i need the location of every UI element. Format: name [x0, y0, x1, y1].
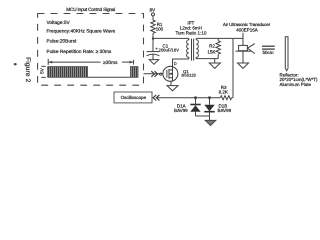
gate wire from MCU box to Q1 — [144, 73, 164, 75]
wire secondary bottom — [196, 58, 218, 60]
ground below diodes — [205, 120, 216, 125]
wire node to transformer primary — [153, 37, 189, 39]
wire R3 to drop — [232, 97, 233, 99]
wire joining diodes — [196, 115, 210, 117]
svg-text:MCU Input Control Signal: MCU Input Control Signal — [66, 7, 115, 12]
wire to ground — [209, 116, 211, 120]
svg-text:≥30ms: ≥30ms — [103, 60, 118, 66]
wire secondary top rail — [196, 37, 243, 39]
resistor R1 — [151, 20, 155, 33]
wire node down to C1 — [152, 39, 154, 52]
transformer IFT primary winding — [187, 38, 189, 59]
transformer core — [191, 39, 193, 61]
diode D1B — [204, 98, 214, 116]
ground below R2 — [214, 59, 216, 63]
svg-text:Turn Ratio 1:10: Turn Ratio 1:10 — [175, 30, 206, 35]
wire oscilloscope line — [158, 97, 221, 99]
wire primary bottom to Q1 drain — [173, 59, 189, 67]
transformer secondary winding — [196, 38, 198, 59]
MOSFET Q1 — [163, 66, 178, 81]
resistor R3 — [220, 96, 231, 100]
dashed MCU box — [38, 14, 144, 86]
ground below C1 — [149, 60, 158, 65]
node junction dot — [152, 37, 154, 39]
50cm distance marks — [262, 45, 275, 47]
svg-text:200uF/16V: 200uF/16V — [159, 48, 180, 53]
waveform burst block 1 — [48, 67, 88, 78]
svg-text:Frequency:40KHz Square Wave: Frequency:40KHz Square Wave — [47, 29, 116, 35]
svg-text:BSS123: BSS123 — [182, 73, 196, 78]
wire 8V to R1 — [152, 16, 154, 20]
svg-text:G: G — [159, 72, 162, 77]
wire R1 to node — [152, 33, 154, 38]
svg-text:Voltage:5V: Voltage:5V — [47, 20, 71, 26]
chevrons to gate — [151, 71, 157, 77]
wire source down — [170, 81, 172, 85]
svg-text:100: 100 — [156, 27, 164, 32]
svg-text:BAV99: BAV99 — [218, 108, 232, 113]
oscilloscope box — [114, 92, 152, 103]
svg-text:BAV99: BAV99 — [174, 108, 188, 113]
ground below Q1 — [167, 86, 178, 91]
svg-text:Air Ultrasonic Transducer: Air Ultrasonic Transducer — [223, 22, 271, 27]
svg-text:8.2K: 8.2K — [219, 89, 228, 94]
air ultrasonic transducer symbol — [236, 44, 255, 63]
wire drop from top rail — [232, 38, 234, 97]
svg-text:Aluminum Plate: Aluminum Plate — [280, 82, 312, 87]
svg-text:15K: 15K — [207, 49, 215, 54]
svg-text:50cm: 50cm — [262, 50, 273, 55]
chevrons to oscilloscope — [153, 95, 159, 101]
8V terminal circle — [152, 13, 155, 16]
small page mark — [14, 63, 17, 65]
dimension arrow >=30ms — [48, 59, 133, 65]
waveform burst block 2 — [131, 67, 139, 78]
svg-text:D: D — [174, 61, 177, 66]
junction dot D1A — [194, 96, 197, 99]
ground below transducer — [238, 63, 249, 68]
svg-text:5V: 5V — [39, 67, 44, 74]
reflector plate — [285, 37, 288, 71]
svg-text:Oscilloscope: Oscilloscope — [121, 95, 147, 100]
junction dot D1B — [208, 96, 211, 99]
diode D1A — [190, 98, 200, 116]
svg-text:8V: 8V — [149, 8, 156, 13]
svg-text:Pulse:20Burst: Pulse:20Burst — [47, 39, 78, 45]
svg-text:R2: R2 — [209, 44, 215, 49]
capacitor C1 — [147, 52, 160, 60]
waveform baseline — [88, 76, 131, 78]
leader from label to transducer — [242, 33, 244, 46]
svg-text:Pulse Repetition Rate: ≥ 30ms: Pulse Repetition Rate: ≥ 30ms — [47, 49, 112, 55]
resistor R2 — [217, 38, 219, 40]
5V amplitude marker — [41, 66, 45, 77]
svg-text:Figure 2: Figure 2 — [24, 57, 31, 83]
svg-text:400EP16A: 400EP16A — [236, 27, 258, 32]
